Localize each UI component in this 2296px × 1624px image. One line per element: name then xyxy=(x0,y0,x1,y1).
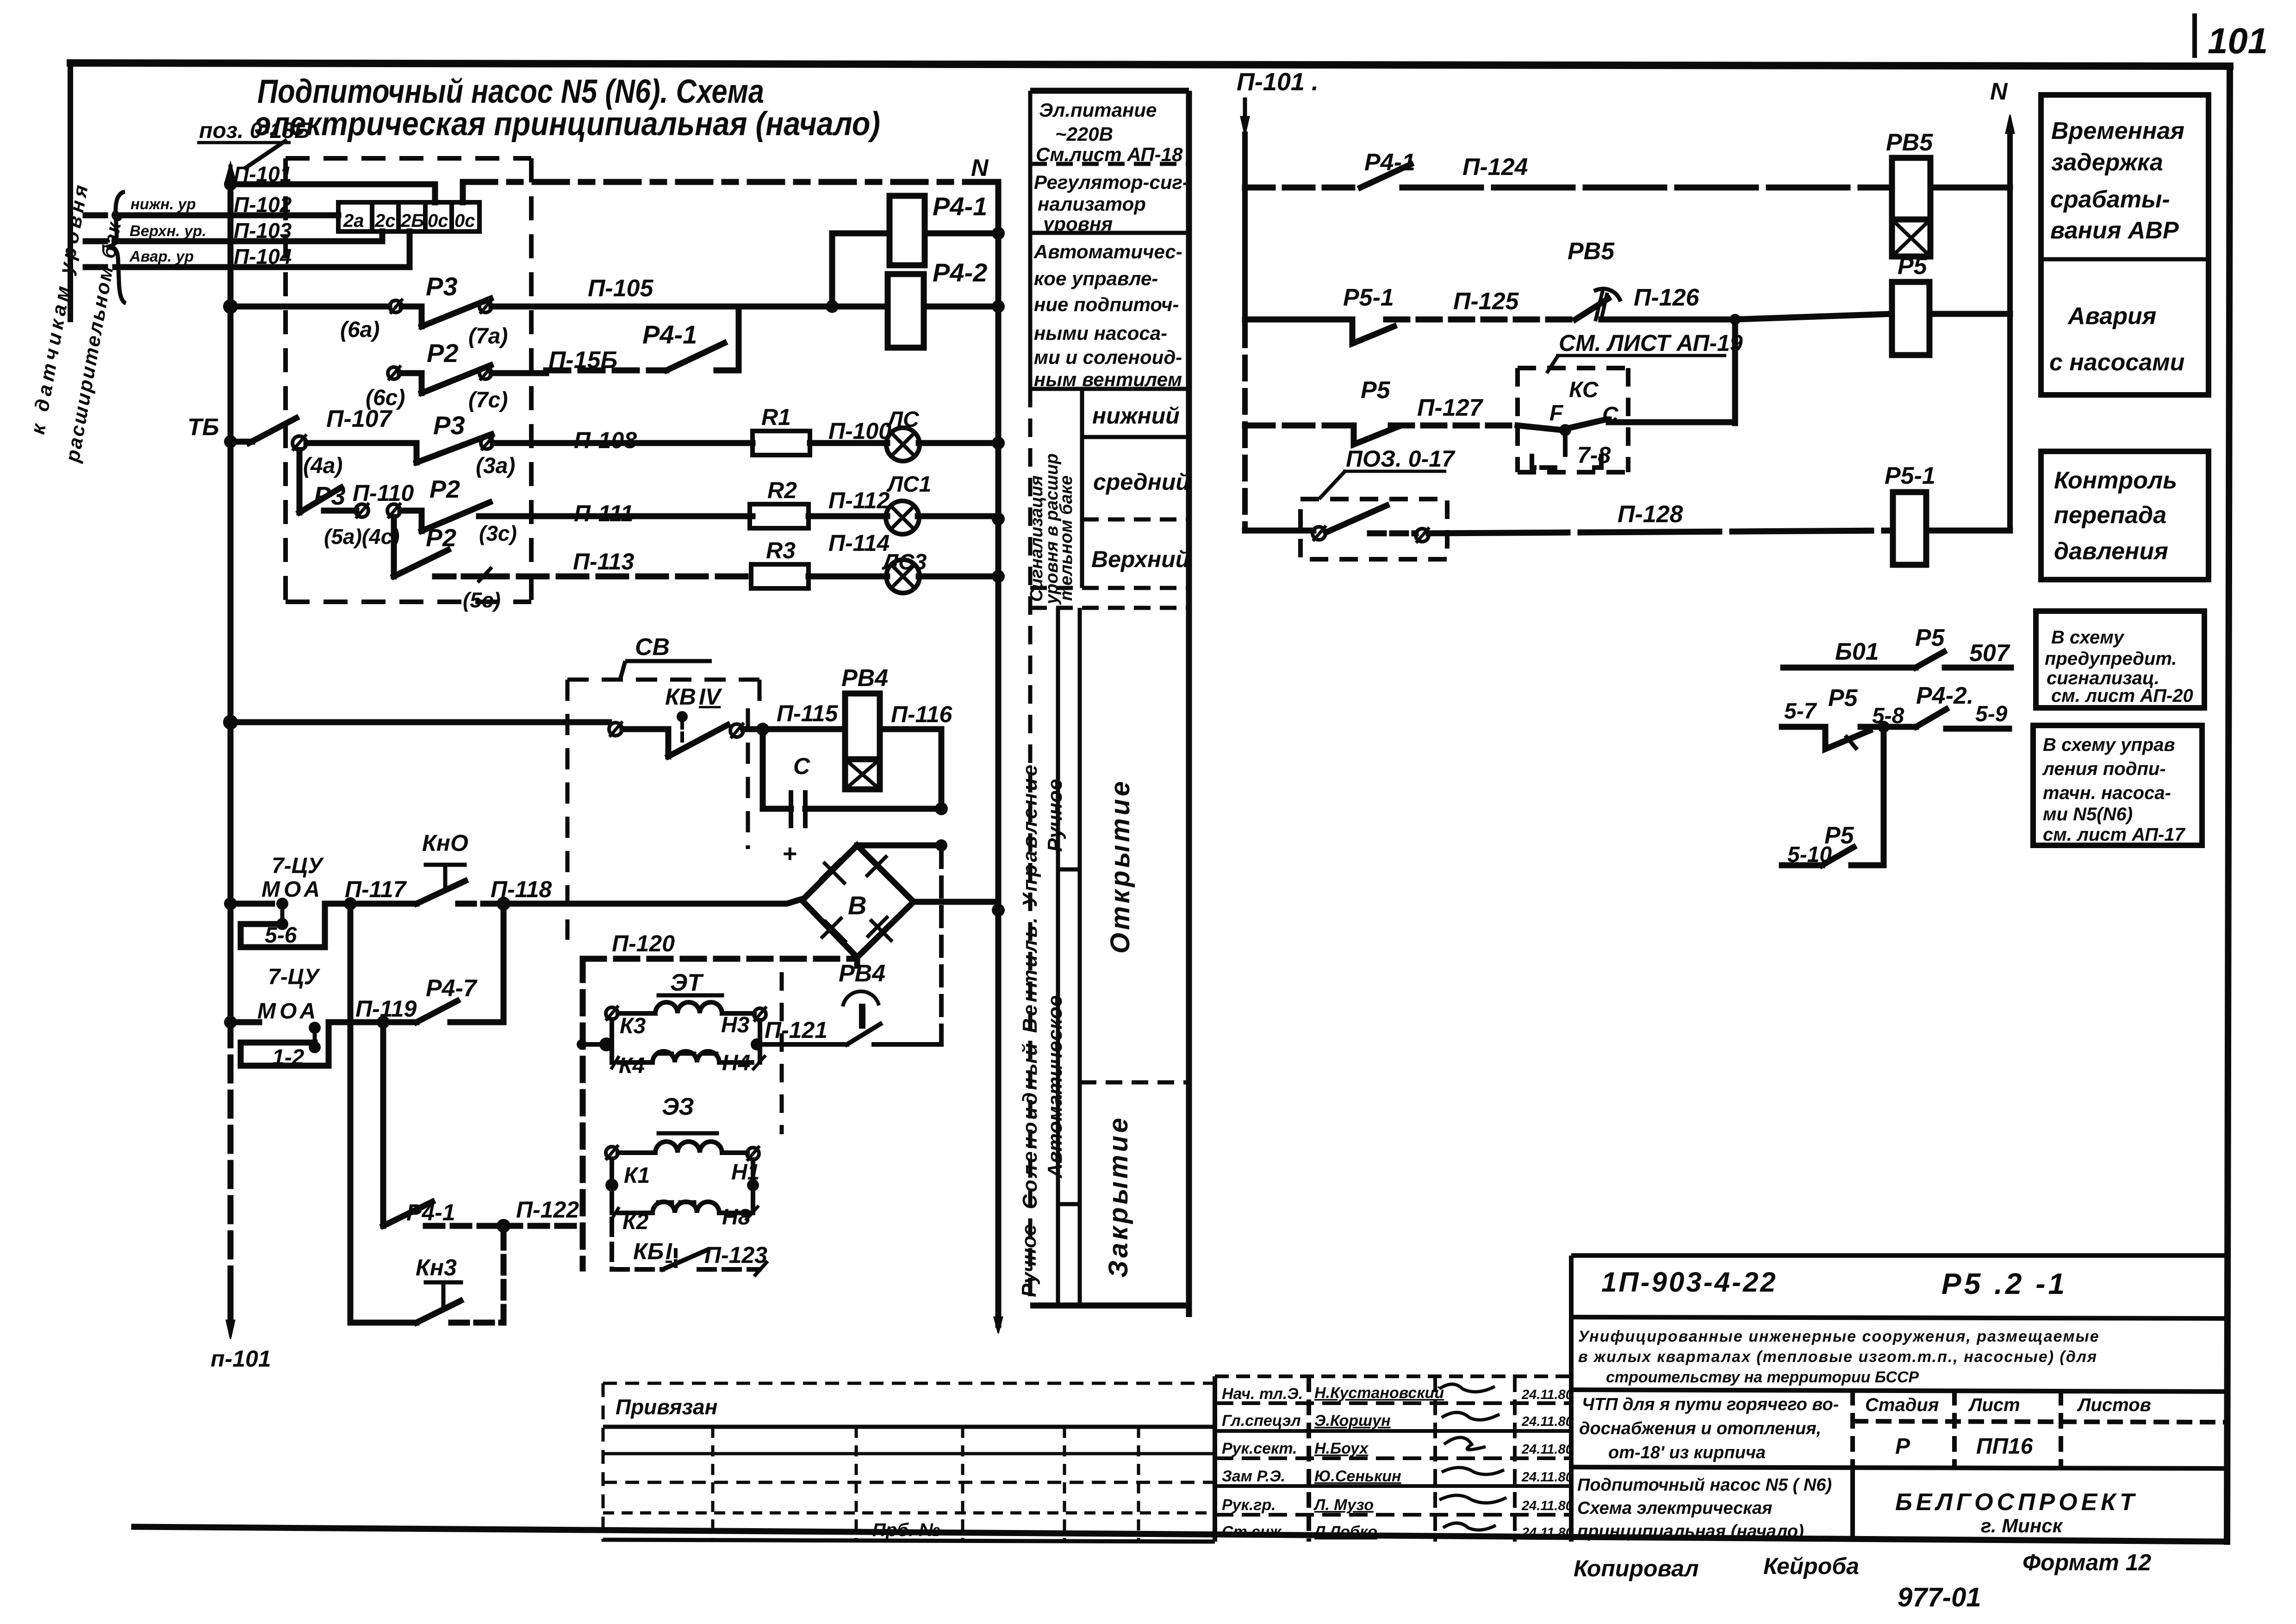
time relay coil РВ4 xyxy=(845,693,880,759)
terminal ПОЗ.0-17 left xyxy=(1313,527,1325,540)
contact КВIV right terminal xyxy=(730,724,743,737)
wire П-120 branch down xyxy=(580,959,586,1268)
terminal block 0с second xyxy=(452,202,479,231)
svg-text:Зам Р.Э.: Зам Р.Э. xyxy=(1222,1468,1285,1485)
svg-text:В схему управ: В схему управ xyxy=(2043,735,2175,755)
diode bridge arm 1 xyxy=(820,859,846,884)
wire КС out xyxy=(1609,419,1735,425)
svg-text:К1: К1 xyxy=(624,1163,650,1188)
svg-text:P4-7: P4-7 xyxy=(426,975,478,1002)
svg-text:(3с): (3с) xyxy=(479,521,517,545)
winding ЭЗ К1-Н1 xyxy=(655,1142,722,1153)
row СВ / КВIV / ПВ4 xyxy=(230,720,941,826)
contact КС F-C xyxy=(1568,419,1609,428)
wire П-111 xyxy=(479,513,753,519)
svg-text:P2: P2 xyxy=(427,338,459,368)
svg-text:1П-903-4-22: 1П-903-4-22 xyxy=(1601,1267,1778,1298)
svg-text:Соленоидный Вентиль. Управлен: Соленоидный Вентиль. Управление xyxy=(1019,762,1041,1209)
svg-text:Н.Боух: Н.Боух xyxy=(1314,1440,1369,1457)
resistors R1 R2 R3 xyxy=(750,431,810,588)
svg-text:П-105: П-105 xyxy=(588,275,654,302)
svg-text:Прб. №: Прб. № xyxy=(872,1520,940,1540)
row П-110 / П-111 xyxy=(355,502,998,531)
svg-text:П-121: П-121 xyxy=(765,1017,828,1043)
svg-text:Ст.снж.: Ст.снж. xyxy=(1222,1523,1286,1541)
svg-text:РВ5: РВ5 xyxy=(1886,129,1933,156)
svg-text:Регулятор-сиг-: Регулятор-сиг- xyxy=(1034,171,1189,193)
svg-text:Рук.сект.: Рук.сект. xyxy=(1222,1440,1297,1457)
terminal К1 xyxy=(606,1147,618,1159)
svg-text:С: С xyxy=(793,753,810,779)
svg-text:П-110: П-110 xyxy=(353,480,414,506)
switch МОА position bar xyxy=(280,904,285,924)
svg-text:ми N5(N6): ми N5(N6) xyxy=(2043,804,2133,824)
svg-text:нижний: нижний xyxy=(1092,403,1180,429)
svg-text:Гл.спецэл: Гл.спецэл xyxy=(1222,1412,1301,1430)
svg-text:IV: IV xyxy=(699,684,722,710)
svg-text:П-114: П-114 xyxy=(828,530,890,556)
svg-text:P3: P3 xyxy=(314,481,346,510)
svg-text:24.11.80: 24.11.80 xyxy=(1521,1499,1573,1513)
svg-text:Р4-1: Р4-1 xyxy=(406,1199,455,1225)
contact P2 blade xyxy=(422,365,491,393)
arrow: right N top xyxy=(2006,115,2014,133)
svg-text:R1: R1 xyxy=(761,404,791,430)
svg-text:К2: К2 xyxy=(622,1210,649,1234)
dashed box ПОЗ.0-17 xyxy=(1300,499,1447,559)
svg-text:П-15Б: П-15Б xyxy=(548,347,617,374)
svg-text:БЕЛГОСПРОЕКТ: БЕЛГОСПРОЕКТ xyxy=(1895,1489,2138,1516)
svg-text:Н1: Н1 xyxy=(731,1160,759,1185)
svg-text:см. лист АП-17: см. лист АП-17 xyxy=(2043,824,2186,845)
wire Б01 xyxy=(1783,665,1916,671)
contact P2 blade row П-113 xyxy=(394,550,448,576)
svg-text:Лист: Лист xyxy=(1968,1395,2020,1415)
svg-text:СМ. ЛИСТ АП-19: СМ. ЛИСТ АП-19 xyxy=(1559,330,1743,356)
contact P2 (7с) terminal xyxy=(479,367,492,379)
junction bus/П-105 xyxy=(223,299,238,314)
contact КБI blade xyxy=(663,1250,707,1269)
P5 coil row2 xyxy=(1892,282,1929,355)
wire: left bus dashed lower xyxy=(228,1022,234,1287)
svg-text:см. лист АП-20: см. лист АП-20 xyxy=(2051,686,2193,706)
svg-text:П-117: П-117 xyxy=(345,876,407,902)
svg-text:П-123: П-123 xyxy=(704,1242,767,1268)
wire П-101 to N xyxy=(463,179,998,185)
wire РВ4 to node xyxy=(874,1042,941,1047)
terminal block 2а xyxy=(338,202,372,231)
Кн3 loop xyxy=(350,1226,504,1323)
wire row П-124 start xyxy=(1245,185,1361,191)
terminal К3 xyxy=(606,1007,618,1019)
svg-text:Л.Лобко: Л.Лобко xyxy=(1313,1523,1377,1541)
terminal Н3 xyxy=(754,1008,766,1020)
svg-text:ным вентилем: ным вентилем xyxy=(1034,369,1182,390)
wire bridge + output xyxy=(857,843,941,849)
svg-text:Унифицированные инженерные соо: Унифицированные инженерные сооружения, р… xyxy=(1578,1328,2100,1345)
svg-text:P4-2.: P4-2. xyxy=(1916,682,1973,709)
svg-text:уровня: уровня xyxy=(1042,213,1113,235)
svg-text:P5: P5 xyxy=(1361,377,1391,404)
svg-text:П-100: П-100 xyxy=(828,418,891,444)
dashed box СВ top xyxy=(567,678,759,682)
svg-text:(5а)(4с): (5а)(4с) xyxy=(324,525,400,549)
svg-text:РВ4: РВ4 xyxy=(839,960,885,987)
contact РВ5 time arc xyxy=(1596,289,1620,300)
wire П-108 xyxy=(493,440,753,446)
wire П-101 xyxy=(230,181,435,187)
svg-text:Кейроба: Кейроба xyxy=(1763,1553,1859,1579)
svg-text:С: С xyxy=(1602,403,1619,427)
wire П-120 xyxy=(583,956,857,962)
frame top border xyxy=(70,63,2230,66)
svg-text:F: F xyxy=(1549,401,1564,425)
dashed enclosure right xyxy=(529,158,534,602)
wire П-126 to P5 coil xyxy=(1735,314,1892,319)
note box В схему управления xyxy=(2033,725,2202,845)
svg-text:Эл.питание: Эл.питание xyxy=(1039,99,1157,121)
jumper 1-2 loop xyxy=(241,1022,329,1066)
svg-text:Автоматичес-: Автоматичес- xyxy=(1033,241,1182,262)
svg-text:П-116: П-116 xyxy=(891,701,953,727)
wire П-118 to bridge xyxy=(504,899,802,904)
svg-text:Ю.Сенькин: Ю.Сенькин xyxy=(1314,1468,1401,1485)
resistor R2 xyxy=(750,504,809,528)
svg-text:Б01: Б01 xyxy=(1835,638,1879,665)
СВ bracket xyxy=(620,661,712,680)
P3 branch down xyxy=(299,450,356,512)
svg-text:P2: P2 xyxy=(429,475,460,503)
switch МОА position bar 2 xyxy=(313,1026,317,1047)
svg-text:P2: P2 xyxy=(426,524,456,552)
button Кн3 cap xyxy=(426,1280,461,1285)
svg-text:(5с): (5с) xyxy=(463,588,501,612)
wire branch P3 down xyxy=(297,450,303,512)
svg-text:(7с): (7с) xyxy=(468,388,508,412)
junction П-115 node xyxy=(756,723,769,736)
contact P5-1 blade xyxy=(1352,319,1394,344)
arrow: bus bottom xyxy=(226,1320,235,1339)
svg-text:поз. 0-18Б: поз. 0-18Б xyxy=(199,119,310,143)
svg-text:Ручное: Ручное xyxy=(1044,779,1066,852)
svg-text:ЧТП для я пути горячего во-: ЧТП для я пути горячего во- xyxy=(1582,1395,1839,1414)
svg-text:доснабжения и отопления,: доснабжения и отопления, xyxy=(1579,1419,1821,1438)
svg-text:Нач. тл.Э.: Нач. тл.Э. xyxy=(1222,1385,1303,1403)
svg-text:Привязан: Привязан xyxy=(616,1395,717,1419)
contact РВ5 blade xyxy=(1575,299,1608,319)
note box Временная задержка/Авария xyxy=(2041,95,2209,395)
svg-text:Л. Музо: Л. Музо xyxy=(1313,1496,1374,1514)
dashed vertical right of windings xyxy=(780,972,784,1134)
PB4 coil with X bottom xyxy=(845,693,880,789)
row П-15Б : contact P2 + P4-1 xyxy=(388,306,739,393)
svg-text:2с: 2с xyxy=(374,211,396,231)
table Привязан xyxy=(602,1383,605,1542)
contact P3 blade xyxy=(422,299,491,326)
svg-text:вания АВР: вания АВР xyxy=(2050,217,2179,244)
svg-text:МОА: МОА xyxy=(257,999,319,1024)
junction П-105 branch xyxy=(826,300,839,313)
row3 P5 П-127 КС box xyxy=(1245,419,1735,444)
junction N/bridge xyxy=(992,904,1005,917)
resistor R1 xyxy=(753,431,810,455)
Кн3 loop left xyxy=(348,1226,354,1323)
svg-text:К3: К3 xyxy=(620,1014,646,1038)
svg-text:7-ЦУ: 7-ЦУ xyxy=(268,965,321,989)
svg-text:(4а): (4а) xyxy=(303,454,342,478)
contact P3 (6а) terminal xyxy=(390,300,402,312)
wire to Кн3 loop xyxy=(348,1022,354,1226)
svg-text:P4-1: P4-1 xyxy=(642,320,697,349)
contact КВIV blade xyxy=(668,725,728,756)
svg-text:П-127: П-127 xyxy=(1417,394,1484,421)
PB5 coil with X xyxy=(1892,158,1930,256)
junction П-118 xyxy=(497,897,510,911)
branch to P4-1 coil xyxy=(832,196,998,348)
svg-text:(7а): (7а) xyxy=(468,324,508,349)
svg-text:Листов: Листов xyxy=(2077,1395,2151,1415)
terminal block 2Б xyxy=(398,202,425,231)
svg-text:КнО: КнО xyxy=(422,830,468,856)
svg-text:5-9: 5-9 xyxy=(1975,702,2008,726)
svg-text:Э.Коршун: Э.Коршун xyxy=(1314,1412,1391,1430)
svg-text:Схема электрическая: Схема электрическая xyxy=(1577,1499,1772,1518)
svg-text:ЭТ: ЭТ xyxy=(670,969,704,996)
left rotated annotation: к датчикам уровня в расширительном баке xyxy=(27,180,128,464)
svg-text:Р: Р xyxy=(1895,1434,1910,1459)
main stamp xyxy=(1571,1255,2227,1542)
wire П-128 xyxy=(1429,531,1893,533)
wire branch to P4-1 coil xyxy=(832,233,890,306)
capacitor C plate 1 xyxy=(789,793,793,826)
Привязан table xyxy=(603,1383,1215,1542)
svg-text:ления подпи-: ления подпи- xyxy=(2042,759,2166,779)
curly bracket xyxy=(110,192,126,303)
svg-text:R3: R3 xyxy=(766,537,796,563)
svg-text:тельном баке: тельном баке xyxy=(1057,475,1076,601)
svg-text:П-112: П-112 xyxy=(828,487,890,513)
svg-text:РВ5: РВ5 xyxy=(1568,238,1615,265)
wire 5-8 branch down xyxy=(1851,727,1884,865)
svg-text:П-118: П-118 xyxy=(491,876,552,902)
svg-text:Стадия: Стадия xyxy=(1865,1395,1939,1415)
diode bridge arm 4 xyxy=(867,916,892,942)
lamp ЛС3 xyxy=(886,560,920,593)
svg-text:тачн. насоса-: тачн. насоса- xyxy=(2043,783,2171,803)
svg-text:P5: P5 xyxy=(1828,685,1858,712)
wire П-125 xyxy=(1386,317,1575,323)
svg-text:СВ: СВ xyxy=(635,634,670,661)
terminal (3а) xyxy=(481,437,493,449)
svg-text:П-125: П-125 xyxy=(1453,288,1519,315)
svg-text:ми и соленоид-: ми и соленоид- xyxy=(1034,346,1182,368)
svg-text:0с: 0с xyxy=(428,211,448,231)
dashed enclosure left xyxy=(283,158,288,602)
diode marks on bridge xyxy=(820,856,892,943)
svg-text:В схему: В схему xyxy=(2051,627,2125,648)
wire П-124 xyxy=(1402,185,1892,191)
wire row П-127 start xyxy=(1245,423,1354,429)
svg-text:Кн3: Кн3 xyxy=(416,1255,457,1280)
svg-text:Н.Кустановский: Н.Кустановский xyxy=(1314,1384,1444,1402)
button КВIV stem dot xyxy=(677,711,688,722)
junction N/ЛС1 xyxy=(992,437,1005,450)
П-120 row xyxy=(583,959,857,1268)
svg-text:П-103: П-103 xyxy=(234,219,292,243)
wire П-118 dashed xyxy=(458,901,497,907)
wire П-121 xyxy=(757,1042,847,1047)
contact P5 blade 5-10 xyxy=(1822,847,1854,865)
relay coil P4-1 xyxy=(890,196,925,265)
dashed box КС top xyxy=(1518,366,1628,370)
wire П-117 branch down xyxy=(348,904,354,1022)
svg-text:Подпиточный насос N5 (N6). С: Подпиточный насос N5 (N6). Схема xyxy=(257,73,764,110)
svg-text:7-8: 7-8 xyxy=(1577,442,1611,468)
svg-text:Автоматическое: Автоматическое xyxy=(1044,995,1066,1179)
wire 5-10 xyxy=(1782,862,1822,868)
svg-text:Копировал: Копировал xyxy=(1574,1555,1699,1581)
dashed box СВ left xyxy=(566,680,570,940)
contact РВ4 blade xyxy=(847,1024,880,1044)
svg-text:П-128: П-128 xyxy=(1618,501,1683,528)
contact P2 (6с) terminal xyxy=(388,367,400,379)
verticals down to П-122 xyxy=(350,904,574,1226)
row1 P4-1 П-124 xyxy=(1245,164,2010,187)
junction Н3/Н4 xyxy=(751,1038,763,1050)
contact P2 blade row П-110 xyxy=(422,502,490,531)
svg-text:ТБ: ТБ xyxy=(187,414,219,441)
P5-1 coil xyxy=(1893,492,1926,565)
terminal (4с) xyxy=(387,504,400,517)
junction dots on bus xyxy=(223,178,238,1029)
contact P5 blade Б01 xyxy=(1916,652,1944,668)
wire: right bus П-101 xyxy=(1242,134,1248,324)
wire: right N bus xyxy=(2007,187,2013,531)
contact P5 blade xyxy=(1354,425,1398,444)
svg-text:P5: P5 xyxy=(1824,822,1854,849)
wire bridge to N xyxy=(914,899,998,905)
junction П-119 xyxy=(377,1016,390,1029)
svg-text:П-122: П-122 xyxy=(516,1197,579,1223)
wire row П-125 start xyxy=(1245,317,1352,323)
svg-text:КС: КС xyxy=(1569,378,1599,402)
terminal block 2с xyxy=(372,202,398,231)
svg-text:Формат 12: Формат 12 xyxy=(2022,1549,2151,1575)
junction bus/П-117 xyxy=(224,897,237,910)
svg-text:(3а): (3а) xyxy=(476,454,515,478)
svg-text:Контроль: Контроль xyxy=(2054,467,2177,494)
diode bridge arm 3 xyxy=(821,917,846,943)
note box Контроль перепада xyxy=(2041,451,2209,580)
button КнО blade xyxy=(417,881,465,904)
svg-text:Авария: Авария xyxy=(2067,303,2156,330)
terminal Н1 xyxy=(747,1148,759,1160)
СВ bracket xyxy=(625,659,712,663)
row2 P5-1 П-125 PB5 П-126 xyxy=(1245,289,2010,423)
svg-text:РВ4: РВ4 xyxy=(841,665,888,692)
junction N/P4-2 xyxy=(992,300,1005,313)
wire labels xyxy=(234,162,292,269)
junction bus/ТБ xyxy=(224,435,237,448)
wire П-104 xyxy=(86,264,132,270)
dashed outline solenoid block xyxy=(780,972,784,1134)
svg-text:Верхний: Верхний xyxy=(1091,546,1189,572)
wire P4-7 to П-118 xyxy=(501,904,507,1022)
wire П-122 xyxy=(426,1223,497,1229)
row4 П-128 / ПОЗ.0-17 xyxy=(1245,506,2010,542)
svg-text:срабаты-: срабаты- xyxy=(2050,186,2170,213)
svg-text:(6а): (6а) xyxy=(340,318,380,342)
svg-text:ПОЗ. 0-17: ПОЗ. 0-17 xyxy=(1346,446,1456,472)
svg-text:П-124: П-124 xyxy=(1462,154,1528,181)
svg-text:П-104: П-104 xyxy=(234,244,292,269)
junction Н1/Н8 xyxy=(747,1179,759,1191)
wire П-102 xyxy=(86,212,132,219)
svg-text:электрическая принципиальная: электрическая принципиальная (начало) xyxy=(255,106,880,143)
svg-text:П-111: П-111 xyxy=(574,500,634,526)
arrow: bus top xyxy=(225,163,236,181)
diode bridge arm 2 xyxy=(866,856,891,881)
svg-text:24.11.80: 24.11.80 xyxy=(1521,1414,1573,1429)
svg-text:Верхн. ур.: Верхн. ур. xyxy=(130,222,206,239)
contact P4-2 blade xyxy=(1916,709,1946,727)
wire into КС box xyxy=(1518,425,1562,430)
table: middle legend top xyxy=(1030,88,1189,94)
winding ЭТ К3-Н3 xyxy=(655,1002,722,1013)
svg-text:24.11.80: 24.11.80 xyxy=(1521,1470,1573,1485)
wire: left bus П-101 vertical xyxy=(228,184,234,1022)
wire row П-128 start xyxy=(1245,528,1313,534)
junction К1/К2 xyxy=(605,1179,618,1192)
svg-text:1-2: 1-2 xyxy=(272,1045,305,1070)
winding ЭТ К4-Н4 xyxy=(653,1051,719,1062)
arrow: N bus bottom xyxy=(994,1317,1002,1333)
svg-text:N: N xyxy=(971,155,989,181)
junction П-116 node xyxy=(935,802,948,815)
svg-text:П-113: П-113 xyxy=(573,549,635,575)
svg-text:P5: P5 xyxy=(1898,253,1928,280)
svg-text:ЛС1: ЛС1 xyxy=(886,472,931,497)
svg-text:0с: 0с xyxy=(454,211,475,231)
svg-text:Рук.гр.: Рук.гр. xyxy=(1222,1496,1276,1514)
svg-text:24.11.80: 24.11.80 xyxy=(1521,1525,1573,1540)
wire to capacitor C xyxy=(763,729,791,809)
svg-text:П-108: П-108 xyxy=(574,427,637,453)
row П-119 xyxy=(230,904,504,1066)
terminal (5а) xyxy=(355,504,368,517)
svg-text:г. Минск: г. Минск xyxy=(1981,1515,2063,1537)
contact ТБ blade xyxy=(249,418,296,443)
lamp ЛС2 xyxy=(886,501,919,534)
jumper 7-8 stem xyxy=(1563,435,1568,456)
bus top arrow xyxy=(229,167,233,184)
wire П-126 xyxy=(1601,317,1735,323)
svg-text:Ручное: Ручное xyxy=(1018,1224,1040,1297)
svg-text:Н3: Н3 xyxy=(721,1013,750,1037)
svg-text:П-126: П-126 xyxy=(1634,284,1700,311)
contact КВIV left terminal xyxy=(609,723,622,736)
row П-113 xyxy=(394,517,998,581)
contact P4-7 blade xyxy=(417,1001,457,1022)
contact P5 NC blade xyxy=(1825,727,1870,749)
wire П-119 branch down xyxy=(380,1022,386,1226)
note box В схему предупредит xyxy=(2036,611,2204,708)
svg-text:Авар. ур: Авар. ур xyxy=(129,248,194,265)
svg-text:давления: давления xyxy=(2054,538,2168,565)
svg-text:КБ: КБ xyxy=(633,1238,664,1264)
svg-text:507: 507 xyxy=(1969,640,2010,667)
svg-text:предупредит.: предупредит. xyxy=(2045,649,2177,669)
